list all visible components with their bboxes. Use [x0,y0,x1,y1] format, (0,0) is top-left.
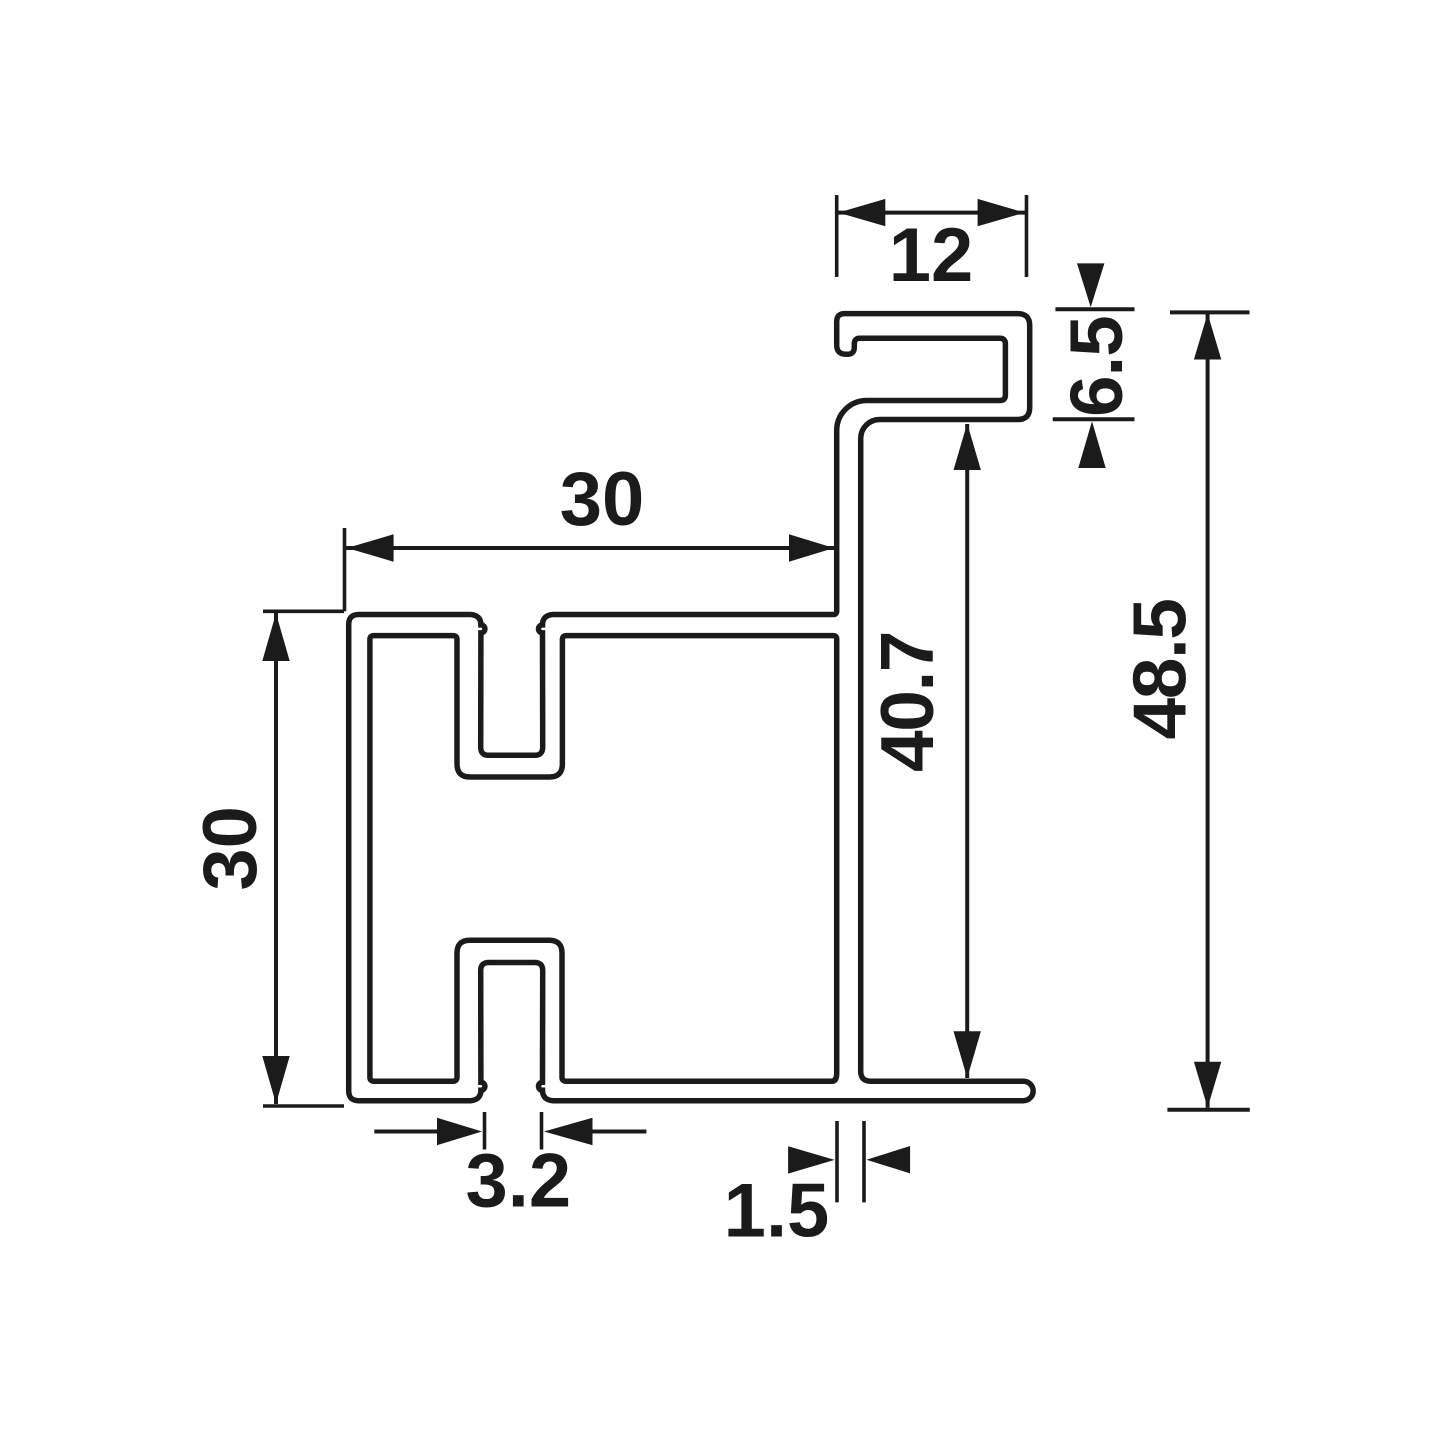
svg-text:12: 12 [889,213,974,298]
dimension 12: left arrow [838,199,885,226]
dimension 40.7: dimension line [965,424,969,1078]
dimension 12: extension line right [1025,195,1029,277]
dimension 48.5: dimension line [1206,314,1210,1108]
dimension 6.5: extension line bottom [1053,417,1135,421]
dimension 12: extension line left [835,195,839,277]
svg-text:6.5: 6.5 [1055,316,1138,417]
dimension 3.2: left tail [374,1130,438,1134]
dimension 30 left: dimension line [274,613,278,1104]
dimension 48.5: extension line top [1170,310,1250,314]
dimension 30 top: right arrow [789,534,834,561]
dimension 40.7: top arrow [954,424,981,471]
dimension 30 top: extension line left [343,528,347,611]
dimension 6.5: bottom arrow [1078,421,1105,468]
dimension 3.2: left arrow [437,1118,482,1145]
dimension 30 top: dimension line [346,546,835,550]
profile outer contour [349,314,1033,1101]
dimension 1.5: extension line left [835,1121,839,1202]
profile inner contour (chamber) [370,636,837,1082]
dimension 1.5: right arrow [867,1146,911,1173]
dimension 30 top: left arrow [347,534,394,561]
dimension 12: right arrow [978,199,1025,226]
dimension 48.5: top arrow [1194,314,1221,360]
dimension 1.5: extension line right [862,1121,866,1202]
svg-text:48.5: 48.5 [1117,600,1201,740]
dimension 3.2: right tail [591,1130,646,1134]
dimension 3.2: right arrow [544,1118,593,1145]
dimension 3.2: extension line left [483,1112,487,1150]
svg-text:30: 30 [560,457,645,542]
dimension 40.7: bottom arrow [954,1031,981,1078]
svg-text:3.2: 3.2 [465,1138,571,1223]
dimension 30 left: bottom arrow [262,1056,289,1104]
svg-text:30: 30 [188,806,273,891]
dimension 48.5: bottom arrow [1194,1062,1221,1108]
dimension 3.2: extension line right [540,1112,544,1150]
dimension 30 left: extension line top [263,609,344,613]
dimension 12: dimension line [838,211,1025,215]
dimension 30 left: extension line bottom [263,1104,344,1108]
dimension 48.5: extension line bottom [1167,1108,1249,1112]
dimension 30 left: top arrow [262,613,289,661]
dimension 6.5: extension line top [1055,307,1134,311]
svg-text:40.7: 40.7 [865,632,949,772]
svg-text:1.5: 1.5 [724,1169,830,1254]
dimension 1.5: left arrow [788,1146,835,1173]
dimension 6.5: top arrow [1077,263,1104,307]
